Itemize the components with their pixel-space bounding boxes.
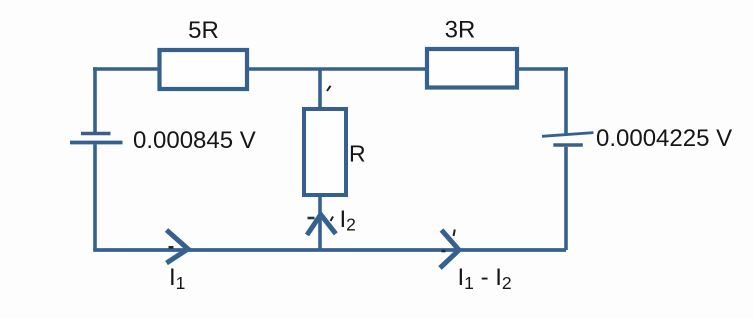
resistor 5R bbox=[160, 17, 248, 89]
svg-text:I2: I2 bbox=[340, 206, 356, 235]
wire: left vertical lower segment bbox=[93, 144, 97, 250]
svg-text:0.0004225 V: 0.0004225 V bbox=[596, 125, 732, 152]
wire: left vertical upper segment bbox=[93, 67, 97, 133]
battery V2 (right cell) bbox=[542, 133, 594, 145]
node A (top junction of middle branch) bbox=[320, 69, 331, 109]
value label 0.0004225 V bbox=[596, 125, 732, 152]
svg-text:R: R bbox=[349, 141, 366, 167]
wire: right vertical upper segment bbox=[564, 67, 568, 134]
wire: middle vertical lower segment bbox=[318, 195, 322, 250]
value label 0.000845 V bbox=[133, 127, 256, 154]
current arrow I1 (rightward on bottom-left wire) bbox=[167, 230, 189, 293]
svg-text:5R: 5R bbox=[188, 17, 219, 44]
svg-text:0.000845 V: 0.000845 V bbox=[133, 127, 256, 154]
current arrow I2 (upward on middle branch) bbox=[307, 206, 356, 235]
svg-text:I1 - I2: I1 - I2 bbox=[458, 264, 512, 293]
current arrow I1 - I2 (rightward on bottom-right wire) bbox=[440, 230, 512, 294]
resistor R bbox=[304, 109, 366, 195]
resistor 3R bbox=[427, 17, 517, 88]
wire: top middle segment bbox=[247, 67, 427, 71]
svg-text:I1: I1 bbox=[169, 264, 185, 293]
battery V1 (left cell) bbox=[70, 134, 123, 143]
svg-text:3R: 3R bbox=[445, 17, 476, 44]
wire: top-left horizontal segment bbox=[93, 67, 160, 71]
wire: bottom horizontal segment bbox=[93, 248, 566, 252]
wire: right vertical lower segment bbox=[564, 147, 568, 250]
wire: top-right horizontal segment bbox=[517, 67, 568, 71]
